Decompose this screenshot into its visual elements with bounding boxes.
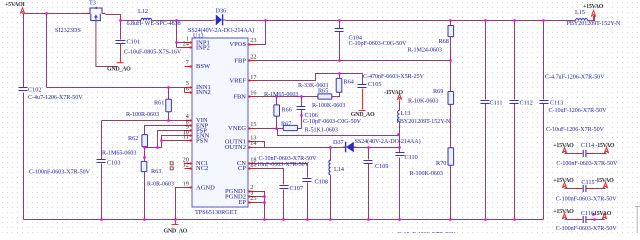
- svg-text:INN2: INN2: [196, 89, 211, 96]
- svg-text:VPOS: VPOS: [229, 41, 246, 48]
- inductor L14 vertical: [329, 160, 331, 175]
- junction at (144.5,147.5): [143, 146, 146, 149]
- resistor R65: [318, 94, 332, 99]
- svg-text:22: 22: [250, 54, 256, 61]
- capacitor C105: [358, 85, 367, 88]
- svg-text:R67: R67: [281, 121, 291, 128]
- junction at (301.5,96.5): [300, 95, 303, 98]
- svg-text:+15VAO: +15VAO: [583, 4, 604, 10]
- svg-text:BSW: BSW: [196, 63, 211, 70]
- wire PGND pins to rail: [257, 192, 265, 220]
- svg-text:OUTN2: OUTN2: [225, 144, 246, 151]
- junction at (157.5,147.5): [156, 146, 159, 149]
- IC left pin stubs: [185, 42, 193, 44]
- wire INP riser and pins 1/24: [177, 21, 185, 48]
- junction at (264.5,219.5): [263, 218, 266, 221]
- wire INN horizontal to pins 5/6: [47, 88, 185, 93]
- wire bottom ground rail: [24, 219, 544, 221]
- capacitor C107: [280, 186, 289, 189]
- svg-text:FBP: FBP: [234, 57, 246, 64]
- svg-text:C-4u7-1206-X7R-50V: C-4u7-1206-X7R-50V: [28, 95, 83, 101]
- inductor L13 vertical: [398, 110, 400, 121]
- junction at (330.5,219.5): [329, 218, 332, 221]
- svg-text:R-1M65-0603: R-1M65-0603: [102, 151, 136, 157]
- svg-text:R-100R-0603: R-100R-0603: [126, 112, 159, 118]
- svg-text:R-10K-0603: R-10K-0603: [408, 99, 438, 105]
- power port +5VAOI: [20, 8, 24, 14]
- wire R64 leads: [332, 74, 340, 97]
- wire top-left rail from +5VAOI: [24, 13, 90, 15]
- pin numbers: [183, 36, 257, 203]
- decoupling row C115 between +15VAO and -15VAO: [562, 183, 607, 192]
- wire OUTN pins tie: [257, 142, 265, 148]
- svg-text:C101: C101: [127, 39, 140, 46]
- junction at (265.5,20.5): [264, 19, 267, 22]
- wire C113 vertical: [543, 21, 545, 220]
- no-connect marks NC1 NC2: [170, 162, 173, 170]
- capacitor C102: [19, 88, 28, 91]
- svg-text:C107: C107: [290, 185, 303, 192]
- svg-text:C108: C108: [315, 179, 328, 186]
- svg-text:C-100nF-0603-X7R-50V: C-100nF-0603-X7R-50V: [29, 170, 91, 176]
- capacitor C113: [540, 101, 549, 104]
- capacitor C101: [116, 41, 126, 44]
- capacitor C109: [364, 161, 373, 164]
- resistor R61: [166, 99, 172, 112]
- svg-text:R62: R62: [128, 135, 138, 142]
- wire control node horizontal: [145, 147, 162, 149]
- junction at (485.5,219.5): [484, 218, 487, 221]
- junction at (120.5,20.5): [119, 19, 122, 22]
- svg-text:R-1M65-0603: R-1M65-0603: [264, 92, 298, 98]
- resistor R68: [448, 26, 454, 37]
- wire R62 bottom node: [144, 147, 146, 162]
- svg-text:PSN: PSN: [196, 137, 208, 144]
- junction at (450.5,20.5): [449, 19, 452, 22]
- svg-text:R-100K-0603: R-100K-0603: [410, 171, 443, 177]
- junction at (368.5,147.5): [367, 146, 370, 149]
- svg-text:C111: C111: [490, 100, 503, 107]
- svg-text:D37: D37: [333, 139, 344, 146]
- ground GND_AO at C101: [117, 58, 124, 63]
- svg-text:R65: R65: [318, 88, 328, 95]
- junction at (339.5,20.5): [338, 19, 341, 22]
- svg-text:R70: R70: [436, 160, 446, 167]
- capacitor C111: [481, 101, 490, 104]
- resistor R70: [448, 148, 454, 165]
- resistor R63: [141, 161, 147, 171]
- wire C106 leads: [301, 97, 303, 129]
- wire C103 branch: [101, 121, 103, 220]
- wire C111 vertical: [485, 21, 487, 220]
- svg-text:R61: R61: [154, 100, 164, 107]
- svg-text:R63: R63: [151, 168, 161, 175]
- svg-text:C-470nF-0603-X5R-25V: C-470nF-0603-X5R-25V: [363, 74, 425, 80]
- svg-text:C115: C115: [581, 179, 594, 186]
- wire T3 drain to junction: [106, 15, 121, 21]
- svg-text:R68: R68: [439, 38, 449, 45]
- svg-text:-15VAO: -15VAO: [595, 178, 614, 184]
- resistor R64: [336, 78, 342, 92]
- capacitor C106: [297, 107, 306, 110]
- svg-text:C-10nF-0603-X7R-50V: C-10nF-0603-X7R-50V: [251, 162, 310, 168]
- junction at (368.5,219.5): [367, 218, 370, 221]
- junction at (175.5,219.5): [174, 218, 177, 221]
- capacitor C104: [335, 29, 344, 32]
- junction at (276.5,128.5): [275, 127, 278, 130]
- inductor L12: [141, 18, 151, 20]
- wire R68 leads: [450, 21, 452, 61]
- junction at (168.5,87.5): [167, 86, 170, 89]
- svg-text:L14: L14: [334, 166, 344, 173]
- capacitor C110: [396, 153, 405, 156]
- wire C112 vertical: [514, 21, 516, 220]
- svg-text:+15VAO: +15VAO: [553, 178, 574, 184]
- svg-text:GND_AO: GND_AO: [164, 228, 188, 233]
- partial gray frame bottom-right: [635, 207, 640, 234]
- transistor T3 (SI2323DS P-MOSFET): [84, 7, 106, 22]
- wire VREF net with jog: [257, 74, 363, 81]
- svg-text:R64: R64: [344, 79, 354, 86]
- svg-text:6.8uH- WE-SPC-4838: 6.8uH- WE-SPC-4838: [127, 21, 181, 27]
- svg-text:C112: C112: [520, 100, 533, 107]
- svg-text:19: 19: [183, 181, 189, 188]
- resistor R62: [142, 135, 148, 147]
- junction at (307.5,219.5): [306, 218, 309, 221]
- svg-text:14: 14: [250, 140, 256, 147]
- junction at (514.5,219.5): [513, 218, 516, 221]
- svg-text:7: 7: [186, 59, 189, 66]
- svg-text:L15: L15: [575, 9, 585, 16]
- diode D37 (SS24) on negative switch node: [343, 142, 356, 153]
- capacitor C112: [510, 101, 519, 104]
- svg-text:C-10uF-0805-X7S-16V: C-10uF-0805-X7S-16V: [124, 50, 182, 56]
- resistor R69: [448, 92, 454, 105]
- pin connection dots: [189, 41, 191, 43]
- svg-text:L12: L12: [138, 8, 148, 15]
- junction at (168.5,120.5): [167, 119, 170, 122]
- svg-text:FBN: FBN: [233, 93, 246, 100]
- svg-text:R-1M24-0603: R-1M24-0603: [408, 48, 442, 54]
- svg-text:C-100nF-0603-X7R-50V: C-100nF-0603-X7R-50V: [556, 161, 618, 167]
- wire L15 to +15VAO arrow: [588, 15, 595, 21]
- IC U13 TPS65130RGET body: [192, 38, 248, 207]
- wire T3 gate to ground net: [96, 22, 118, 67]
- svg-text:VNEG: VNEG: [228, 125, 246, 132]
- IC right pin stubs: [249, 44, 257, 46]
- ground GND_AO at bottom rail: [172, 220, 179, 225]
- junction at (399.5,219.5): [398, 218, 401, 221]
- ground GND_AO at C105: [359, 89, 366, 111]
- svg-text:EP: EP: [238, 199, 246, 206]
- junction at (514.5,20.5): [513, 19, 516, 22]
- junction at (399.5,147.5): [398, 146, 401, 149]
- wire -15VAO chain with L13 and C110: [399, 101, 401, 220]
- junction at (283.5,219.5): [282, 218, 285, 221]
- svg-text:23: 23: [250, 37, 256, 44]
- wire CP to C107: [257, 169, 284, 220]
- svg-text:R-0R-0603: R-0R-0603: [147, 182, 174, 188]
- junction at (450.5,219.5): [449, 218, 452, 221]
- junction at (161.5,140.5): [160, 139, 163, 142]
- svg-text:TPS65130RGET: TPS65130RGET: [195, 209, 238, 216]
- svg-text:C105: C105: [368, 81, 381, 88]
- wire R63 to rail: [144, 172, 146, 220]
- wire FBN net: [257, 96, 318, 98]
- svg-text:25: 25: [250, 195, 256, 202]
- svg-text:NC2: NC2: [196, 165, 208, 172]
- junction at (301.5,115.5): [300, 114, 303, 117]
- svg-text:C-10uF-1206-X7R-50V: C-10uF-1206-X7R-50V: [398, 232, 457, 233]
- svg-text:L13: L13: [401, 110, 411, 117]
- svg-text:C110: C110: [405, 154, 418, 161]
- svg-text:C-4.7uF-1206-X7R-50V: C-4.7uF-1206-X7R-50V: [545, 75, 605, 81]
- junction at (264.5,196.5): [263, 195, 266, 198]
- wire ENP to R62: [145, 126, 185, 135]
- svg-text:+15VAO: +15VAO: [553, 209, 574, 215]
- svg-text:R69: R69: [433, 88, 443, 95]
- svg-text:R-100K-0603: R-100K-0603: [312, 103, 345, 109]
- junction at (144.5,157.5): [143, 156, 146, 159]
- svg-text:15: 15: [250, 121, 256, 128]
- svg-text:+15VAO: +15VAO: [553, 143, 574, 149]
- junction at (176.5,20.5): [175, 19, 178, 22]
- svg-text:C-100nF-0603-X7R-50V: C-100nF-0603-X7R-50V: [556, 226, 618, 232]
- wire VNEG pin15 to R67: [257, 128, 302, 130]
- wire VPOS riser: [257, 21, 266, 45]
- wire VNEG jog to -15VAO node: [278, 129, 399, 136]
- junction at (339.5,60.5): [338, 59, 341, 62]
- wire L14 leads: [330, 148, 332, 220]
- svg-text:11: 11: [183, 134, 189, 141]
- svg-text:C-10pF-0603-C0G-50V: C-10pF-0603-C0G-50V: [303, 119, 362, 125]
- svg-text:C-10pF-0603-C0G-50V: C-10pF-0603-C0G-50V: [349, 41, 408, 47]
- svg-text:VREF: VREF: [229, 78, 246, 85]
- wire C105 leads: [362, 74, 364, 85]
- junction at (485.5,20.5): [484, 19, 487, 22]
- wire FBP net: [257, 60, 451, 62]
- svg-text:16: 16: [250, 90, 256, 97]
- junction at (176.5,42.5): [175, 41, 178, 44]
- svg-text:-15VAO: -15VAO: [384, 90, 403, 96]
- junction at (46.5,13.5): [45, 12, 48, 15]
- pin names inside IC: [196, 39, 246, 206]
- svg-text:R66: R66: [282, 107, 292, 114]
- junction at (593.5,214.5): [592, 213, 595, 216]
- wire C109 leads: [368, 148, 370, 220]
- junction at (276.5,96.5): [275, 95, 278, 98]
- svg-text:PBY201209T-152Y-N: PBY201209T-152Y-N: [567, 21, 621, 27]
- junction at (339.5,73.5): [338, 72, 341, 75]
- wire main top rail to L15: [121, 20, 576, 22]
- capacitor C108: [303, 179, 312, 182]
- wire pin9 drop: [158, 131, 185, 148]
- svg-text:+5VAOI: +5VAOI: [5, 2, 25, 8]
- resistor R67: [283, 125, 297, 130]
- wire C101 branch: [120, 21, 122, 40]
- svg-text:C113: C113: [550, 100, 563, 107]
- svg-text:D36: D36: [216, 7, 227, 14]
- wire C102 branch vertical: [23, 14, 25, 220]
- svg-text:C114: C114: [581, 142, 594, 149]
- svg-text:FBY201209T-152Y-N: FBY201209T-152Y-N: [397, 119, 451, 125]
- wire CN to C108: [257, 164, 308, 220]
- wire C104 leads: [339, 21, 341, 61]
- junction at (144.5,219.5): [143, 218, 146, 221]
- wire R69-R70 chain: [450, 61, 452, 220]
- svg-text:21: 21: [250, 162, 256, 169]
- junction at (450.5,60.5): [449, 59, 452, 62]
- wire pins10/11 tie: [162, 136, 185, 148]
- svg-text:C-10uF-1206-X7R-50V: C-10uF-1206-X7R-50V: [549, 108, 608, 114]
- wire AGND to rail: [176, 188, 185, 220]
- svg-text:-15VAO: -15VAO: [592, 211, 611, 217]
- svg-text:24: 24: [183, 41, 189, 48]
- svg-text:T3: T3: [89, 0, 96, 7]
- svg-text:6: 6: [186, 86, 189, 93]
- svg-text:C-10nF-0603-X7R-50V: C-10nF-0603-X7R-50V: [259, 156, 318, 162]
- svg-text:C103: C103: [107, 160, 120, 167]
- svg-text:12: 12: [183, 162, 189, 169]
- svg-text:R-51K1-0603: R-51K1-0603: [305, 128, 338, 134]
- svg-text:INP2: INP2: [196, 44, 210, 51]
- diode D16 (SS24) on top rail: [214, 14, 226, 25]
- power port -15VAO over L13: [397, 94, 401, 100]
- svg-text:GND_AO: GND_AO: [351, 112, 375, 118]
- svg-text:SS24(40V-2A-DO-214AA): SS24(40V-2A-DO-214AA): [355, 138, 421, 145]
- inductor L15: [576, 19, 588, 21]
- svg-text:C-10uF-1206-X7R-50V: C-10uF-1206-X7R-50V: [546, 127, 605, 133]
- power port +15VAO top right: [591, 11, 595, 17]
- svg-text:C102: C102: [28, 87, 41, 94]
- wire INN feed vertical: [46, 14, 48, 88]
- svg-text:CP: CP: [238, 165, 246, 172]
- junction at (543.5,20.5): [542, 19, 545, 22]
- svg-text:C109: C109: [375, 163, 388, 170]
- decoupling row C116 between +15VAO and -15VAO: [562, 214, 606, 223]
- svg-text:17: 17: [250, 74, 256, 81]
- junction at (398.5,134.5): [397, 133, 400, 136]
- wire switch node to D37 and VNEG vertical: [257, 147, 400, 149]
- wire VIN net: [102, 120, 185, 122]
- svg-text:AGND: AGND: [196, 184, 215, 191]
- svg-text:SI2323DS: SI2323DS: [55, 27, 81, 34]
- wire R66 leads: [276, 97, 278, 129]
- resistor R66: [274, 105, 280, 116]
- junction at (264.5,202.5): [263, 201, 266, 204]
- svg-text:GND_AO: GND_AO: [107, 67, 131, 73]
- svg-text:-15VAO: -15VAO: [596, 143, 615, 149]
- junction at (101.5,219.5): [100, 218, 103, 221]
- junction at (330.5,147.5): [329, 146, 332, 149]
- wire R61 leads: [168, 88, 170, 121]
- capacitor C103: [97, 160, 106, 163]
- decoupling row C114 between +15VAO and -15VAO: [562, 148, 608, 157]
- svg-text:C-100nF-0603-X7R-50V: C-100nF-0603-X7R-50V: [556, 196, 618, 202]
